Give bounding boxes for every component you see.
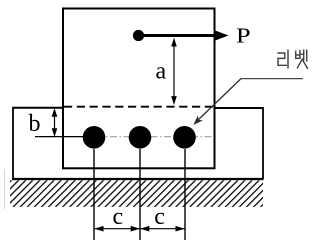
svg-text:P: P xyxy=(236,25,251,48)
svg-text:c: c xyxy=(154,204,165,230)
svg-text:a: a xyxy=(156,59,167,85)
svg-text:c: c xyxy=(113,204,124,230)
svg-text:b: b xyxy=(29,111,41,137)
